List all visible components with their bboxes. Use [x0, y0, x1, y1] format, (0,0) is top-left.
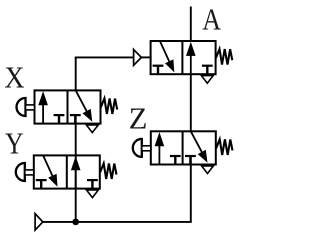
valve Z: left box flow arrow (pass)	[155, 132, 165, 165]
valve Y: body	[34, 155, 100, 188]
valve X: body	[35, 90, 101, 123]
valve Y: exhaust vent triangle	[87, 190, 99, 198]
valve Z: right box exhaust path arrow	[191, 131, 208, 162]
wire: pilot line from X outlet to valve A pilot	[75, 56, 134, 58]
valve Y: right box blocked port T on exhaust	[87, 180, 98, 189]
pilot signal triangle at valve A	[134, 50, 142, 66]
valve Z: return spring	[216, 139, 232, 155]
wire: output line to port A (top)	[190, 7, 192, 43]
svg-text:X: X	[4, 61, 24, 95]
wire: X valve outlet up to pilot branch corner	[75, 57, 77, 91]
valve A: right box blocked port T on exhaust	[202, 66, 213, 75]
svg-text:Z: Z	[129, 102, 148, 136]
valve A: left box blocked port T	[153, 66, 164, 75]
manual push-button actuator of valve Y	[16, 163, 34, 181]
wire: Z valve blocked inlet down to supply corner	[190, 156, 192, 222]
valve X: return spring	[101, 98, 117, 114]
valve X: left box flow arrow (pass)	[38, 91, 48, 124]
valve X: right box blocked port T on inlet	[70, 115, 81, 124]
valve Y: left box exhaust path arrow	[43, 155, 57, 186]
valve A: body	[151, 41, 216, 74]
valve Z: body	[151, 131, 216, 164]
wire: pilot triangle to valve A body	[141, 56, 151, 58]
valve Z: exhaust vent triangle	[202, 166, 214, 174]
valve A: exhaust vent triangle	[201, 76, 213, 84]
valve A: right box flow arrow (pass)	[186, 42, 196, 74]
valve Y: return spring	[100, 163, 116, 179]
manual push-button actuator of valve X	[17, 98, 35, 116]
valve X: exhaust vent triangle	[86, 125, 98, 133]
manual push-button actuator of valve Z	[133, 139, 151, 157]
wire: bottom supply line	[43, 221, 192, 223]
valve A: return spring	[216, 49, 232, 65]
wire: X valve inlet down through Y valve to supply junction	[75, 115, 77, 222]
valve Z: left box blocked port T	[170, 156, 181, 165]
junction node (supply branch to Y valve)	[72, 219, 79, 226]
svg-text:Y: Y	[5, 126, 24, 160]
valve X: right box exhaust path arrow	[76, 90, 93, 121]
wire: A valve outlet down to Z valve inlet	[190, 73, 192, 132]
svg-text:A: A	[202, 3, 221, 37]
compressed air source triangle	[35, 214, 43, 230]
valve Y: right box flow arrow (pass)	[71, 156, 81, 189]
valve Y: left box blocked port T	[36, 180, 47, 189]
valve X: left box blocked port T	[54, 115, 65, 124]
valve A: left box exhaust path arrow	[160, 41, 174, 72]
valve Z: right box blocked port T on inlet	[185, 156, 196, 165]
